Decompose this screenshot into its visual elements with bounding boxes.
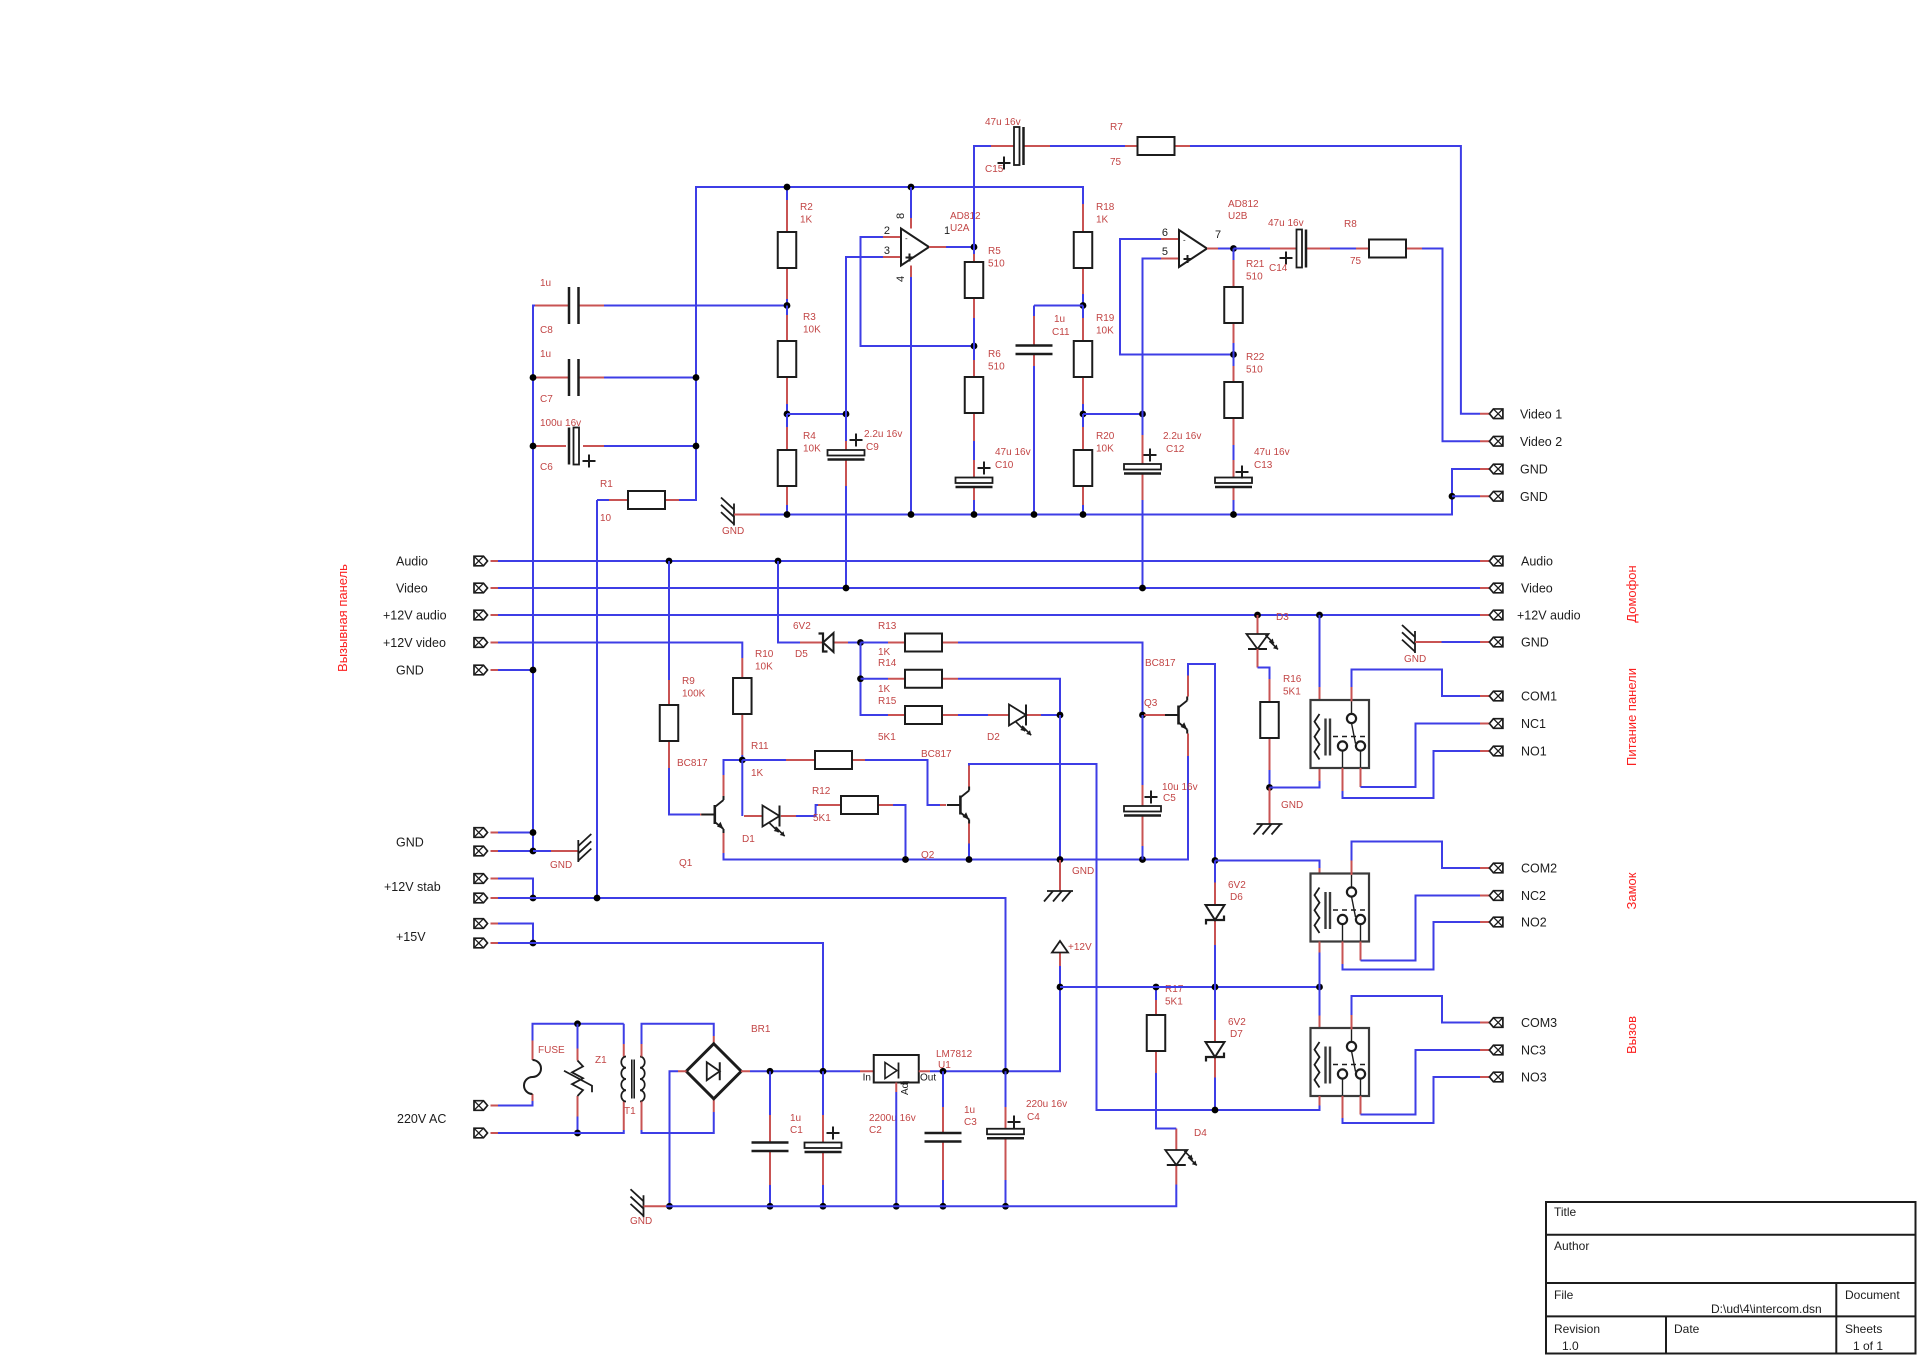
wire Q1 collector to node bbox=[724, 760, 743, 775]
Q1 base stub bbox=[700, 814, 702, 816]
zener diode D5 bbox=[819, 633, 834, 652]
junction bbox=[971, 511, 978, 518]
wire top supply bus bbox=[679, 187, 1083, 500]
junction bbox=[530, 667, 537, 674]
wire bbox=[861, 678, 889, 680]
port +12V audio right stub bbox=[1480, 614, 1489, 616]
port Audio left bbox=[474, 556, 488, 566]
resistor R17 bbox=[1147, 1015, 1166, 1051]
junction bbox=[820, 1203, 827, 1210]
capacitor C9 pins bbox=[845, 441, 847, 450]
wire bbox=[577, 1117, 579, 1134]
resistor R9 label bbox=[682, 676, 706, 700]
svg-text:GND: GND bbox=[1281, 800, 1303, 811]
resistor R3 pins bbox=[786, 315, 788, 341]
transistor Q1 bbox=[701, 796, 723, 833]
wire audio bus bbox=[498, 560, 1480, 562]
capacitor C5 pins bbox=[1142, 785, 1144, 806]
Q2 emitter bbox=[968, 824, 970, 844]
svg-text:1u: 1u bbox=[540, 349, 551, 360]
wire K3 NO to NO3 bbox=[1343, 1077, 1481, 1123]
svg-text:10K: 10K bbox=[1096, 326, 1114, 337]
port NC3 stub bbox=[1480, 1049, 1489, 1051]
svg-text:C12: C12 bbox=[1166, 444, 1185, 455]
port +12V stab b stub bbox=[491, 897, 499, 899]
svg-text:-: - bbox=[905, 234, 908, 243]
resistor R1 label bbox=[600, 479, 613, 524]
junction bbox=[1057, 984, 1064, 991]
svg-text:COM1: COM1 bbox=[1521, 690, 1557, 704]
junction bbox=[739, 757, 746, 764]
junction bbox=[1230, 245, 1237, 252]
wire R11 to Q2 base bbox=[865, 760, 940, 805]
junction bbox=[893, 1203, 900, 1210]
svg-text:C5: C5 bbox=[1163, 793, 1176, 804]
diode D7 labels bbox=[1228, 1017, 1246, 1040]
svg-text:+12V audio: +12V audio bbox=[1517, 609, 1581, 623]
wire +15V row bbox=[498, 943, 823, 1071]
svg-text:C13: C13 bbox=[1254, 460, 1273, 471]
svg-text:GND: GND bbox=[630, 1216, 652, 1227]
svg-text:R16: R16 bbox=[1283, 674, 1302, 685]
svg-text:2: 2 bbox=[884, 225, 890, 237]
svg-text:GND: GND bbox=[1404, 654, 1426, 665]
resistor R1 pins bbox=[609, 499, 628, 501]
port GND right-top2 stub bbox=[1480, 495, 1489, 497]
svg-text:AD812: AD812 bbox=[1228, 199, 1259, 210]
svg-text:Revision: Revision bbox=[1554, 1322, 1600, 1336]
capacitor C8 bbox=[569, 287, 579, 324]
junction bbox=[902, 856, 909, 863]
junction bbox=[594, 895, 601, 902]
LED D4 bbox=[1165, 1150, 1196, 1165]
svg-text:Q2: Q2 bbox=[921, 850, 935, 861]
svg-text:10K: 10K bbox=[755, 662, 773, 673]
port Video 1 stub bbox=[1480, 413, 1489, 415]
wire bbox=[786, 505, 788, 515]
svg-text:1: 1 bbox=[944, 225, 950, 237]
wire AC2 row bbox=[498, 1130, 624, 1133]
junction bbox=[1316, 984, 1323, 991]
svg-text:Video 2: Video 2 bbox=[1520, 435, 1562, 449]
svg-text:+12V stab: +12V stab bbox=[384, 880, 441, 894]
port COM1 bbox=[1489, 691, 1503, 701]
port Video right stub bbox=[1480, 587, 1489, 589]
svg-text:Adj: Adj bbox=[900, 1081, 911, 1095]
resistor R20 label bbox=[1096, 431, 1115, 455]
K2 NO pin bbox=[1342, 942, 1344, 965]
resistor R9 bbox=[660, 705, 679, 741]
svg-text:D4: D4 bbox=[1194, 1128, 1207, 1139]
capacitor C13 label bbox=[1254, 447, 1290, 471]
resistor R16 bbox=[1260, 702, 1279, 738]
ground left bbox=[578, 834, 591, 862]
resistor R20 bbox=[1074, 450, 1093, 486]
wire Q3 base to C5 bbox=[1142, 715, 1144, 785]
wire pin5 to node bbox=[1143, 259, 1162, 415]
junction bbox=[530, 895, 537, 902]
svg-text:Вызывная панель: Вызывная панель bbox=[335, 564, 350, 672]
capacitor C1 pins bbox=[769, 1115, 771, 1143]
capacitor C8 pins bbox=[535, 305, 569, 307]
capacitor C3 pins bbox=[942, 1107, 944, 1133]
resistor R18 label bbox=[1096, 202, 1115, 226]
R16 ground pin bbox=[1269, 788, 1271, 825]
wire bbox=[1233, 355, 1235, 367]
wire bbox=[958, 714, 988, 716]
svg-text:+15V: +15V bbox=[396, 930, 426, 944]
resistor R4 pins bbox=[786, 427, 788, 450]
svg-text:10u 16v: 10u 16v bbox=[1162, 782, 1198, 793]
resistor R16 label bbox=[1283, 674, 1302, 698]
svg-text:8: 8 bbox=[895, 213, 907, 219]
junction bbox=[530, 374, 537, 381]
port 220V AC a bbox=[474, 1101, 488, 1111]
svg-text:10: 10 bbox=[600, 513, 612, 524]
Q1 collector bbox=[723, 775, 725, 796]
wire bbox=[1233, 249, 1235, 261]
junction bbox=[908, 184, 915, 191]
junction bbox=[940, 1203, 947, 1210]
resistor R17 label bbox=[1165, 984, 1184, 1008]
port +15V b stub bbox=[491, 942, 499, 944]
port GND left stub bbox=[491, 669, 499, 671]
T1 primary pins bbox=[623, 1102, 625, 1131]
port GND right-top2 bbox=[1489, 491, 1503, 501]
svg-text:5K1: 5K1 bbox=[1165, 997, 1183, 1008]
Q3 base stub bbox=[1144, 714, 1165, 716]
svg-text:Q3: Q3 bbox=[1144, 698, 1158, 709]
port GND2b bbox=[474, 846, 488, 856]
resistor R15 bbox=[905, 706, 942, 724]
K2 COM pin bbox=[1351, 861, 1353, 876]
svg-text:1 of 1: 1 of 1 bbox=[1853, 1339, 1883, 1353]
wire bbox=[968, 844, 970, 860]
svg-text:1.0: 1.0 bbox=[1562, 1339, 1579, 1353]
wire K1 NC to NC1 bbox=[1361, 724, 1481, 788]
svg-text:C10: C10 bbox=[995, 460, 1014, 471]
svg-text:-: - bbox=[1183, 236, 1186, 245]
capacitor C6 label bbox=[540, 418, 581, 473]
port +15V a bbox=[474, 919, 488, 929]
junction bbox=[784, 302, 791, 309]
wire bbox=[1214, 945, 1216, 987]
junction bbox=[966, 856, 973, 863]
junction bbox=[767, 1203, 774, 1210]
transistor Q2 labels bbox=[921, 749, 952, 861]
svg-text:R13: R13 bbox=[878, 621, 897, 632]
svg-text:U2B: U2B bbox=[1228, 211, 1248, 222]
bridge left pin bbox=[678, 1070, 687, 1072]
wire bbox=[946, 246, 974, 248]
resistor R3 bbox=[778, 341, 797, 377]
svg-text:FUSE: FUSE bbox=[538, 1045, 565, 1056]
port Video 2 bbox=[1489, 436, 1503, 446]
ground right pin bbox=[1415, 641, 1442, 643]
junction bbox=[1212, 857, 1219, 864]
resistor R22 label bbox=[1246, 352, 1265, 376]
resistor R21 bbox=[1224, 287, 1243, 323]
capacitor C14 bbox=[1280, 230, 1307, 268]
wire K3 NC to NC3 bbox=[1361, 1050, 1481, 1115]
wire R14 to D2 node bbox=[958, 679, 1060, 715]
regulator Adj pin bbox=[895, 1083, 897, 1093]
junction bbox=[971, 343, 978, 350]
junction bbox=[666, 558, 673, 565]
svg-text:NO3: NO3 bbox=[1521, 1071, 1547, 1085]
wire bbox=[1214, 1078, 1216, 1111]
ground mid bbox=[1044, 891, 1073, 902]
wire bbox=[822, 1071, 824, 1115]
svg-text:C1: C1 bbox=[790, 1125, 803, 1136]
port GND left bbox=[474, 665, 488, 675]
capacitor C11 bbox=[1016, 346, 1053, 355]
wire bbox=[973, 247, 975, 254]
svg-text:R5: R5 bbox=[988, 246, 1001, 257]
port NO3 bbox=[1489, 1072, 1503, 1082]
svg-text:D6: D6 bbox=[1230, 892, 1243, 903]
svg-text:COM3: COM3 bbox=[1521, 1016, 1557, 1030]
capacitor C5 label bbox=[1162, 782, 1198, 804]
svg-text:47u 16v: 47u 16v bbox=[995, 447, 1031, 458]
wire R7 to Video1 port bbox=[1190, 146, 1480, 414]
wire K1 NO to NO1 bbox=[1343, 751, 1481, 798]
svg-text:T1: T1 bbox=[624, 1106, 636, 1117]
svg-text:510: 510 bbox=[988, 362, 1005, 373]
wire C7 to bus column bbox=[604, 377, 696, 379]
wire bbox=[742, 759, 786, 761]
junction bbox=[530, 443, 537, 450]
relay K3 bbox=[1311, 1028, 1370, 1096]
resistor R21 label bbox=[1246, 259, 1265, 283]
capacitor C14 pins bbox=[1270, 248, 1297, 250]
wire R8 to Video2 port bbox=[1422, 249, 1480, 442]
wire bbox=[769, 1185, 771, 1206]
svg-text:1u: 1u bbox=[964, 1105, 975, 1116]
wire bbox=[498, 850, 533, 852]
svg-text:+12V video: +12V video bbox=[383, 636, 446, 650]
wire R12 down bbox=[893, 805, 906, 860]
svg-text:Домофон: Домофон bbox=[1624, 565, 1639, 622]
port COM2 bbox=[1489, 863, 1503, 873]
junction bbox=[1254, 612, 1261, 619]
junction bbox=[843, 585, 850, 592]
capacitor C14 label bbox=[1268, 218, 1304, 274]
wire bbox=[1214, 861, 1216, 883]
svg-text:NC2: NC2 bbox=[1521, 889, 1546, 903]
svg-text:R11: R11 bbox=[751, 741, 769, 752]
wire bbox=[786, 299, 788, 306]
port +12V stab a bbox=[474, 874, 488, 884]
svg-text:1K: 1K bbox=[878, 647, 891, 658]
resistor R19 label bbox=[1096, 313, 1115, 337]
junction bbox=[1316, 612, 1323, 619]
+12V arrow pin bbox=[1059, 953, 1061, 967]
capacitor C1 bbox=[752, 1143, 789, 1152]
wire C12 to video row bbox=[1142, 500, 1144, 588]
resistor R11 label bbox=[751, 741, 769, 779]
wire C9 top bbox=[845, 414, 847, 441]
junction bbox=[775, 558, 782, 565]
port GND right-top bbox=[1489, 464, 1503, 474]
port COM2 stub bbox=[1480, 867, 1489, 869]
wire bbox=[1330, 248, 1356, 250]
svg-text:GND: GND bbox=[1072, 866, 1094, 877]
svg-text:R4: R4 bbox=[803, 431, 816, 442]
capacitor C9 label bbox=[864, 429, 902, 453]
junction bbox=[1002, 1068, 1009, 1075]
wire secondary top to bridge bbox=[642, 1024, 714, 1044]
relay K1 bbox=[1311, 700, 1370, 768]
Q2 collector bbox=[968, 766, 970, 787]
svg-text:GND: GND bbox=[722, 526, 744, 537]
wire bbox=[623, 1024, 625, 1044]
wire bbox=[1218, 248, 1234, 250]
capacitor C7 bbox=[569, 359, 579, 396]
svg-text:Out: Out bbox=[920, 1073, 936, 1084]
svg-text:5K1: 5K1 bbox=[1283, 687, 1301, 698]
wire adj to gnd bbox=[895, 1092, 897, 1206]
svg-text:6: 6 bbox=[1162, 227, 1168, 239]
capacitor C5 bbox=[1124, 791, 1161, 816]
resistor R4 label bbox=[803, 431, 821, 455]
wire bbox=[973, 500, 975, 515]
junction bbox=[843, 411, 850, 418]
svg-text:R6: R6 bbox=[988, 349, 1001, 360]
junction bbox=[1080, 411, 1087, 418]
wire GND port to column bbox=[498, 669, 533, 671]
junction bbox=[1057, 856, 1064, 863]
power +12V symbol bbox=[1052, 941, 1068, 953]
svg-text:5: 5 bbox=[1162, 246, 1168, 258]
ground R16 bbox=[1254, 824, 1283, 835]
bridge rectifier BR1 bbox=[686, 1044, 741, 1099]
wire raw dc row bbox=[750, 1070, 860, 1072]
svg-text:C4: C4 bbox=[1027, 1112, 1040, 1123]
transistor Q3 labels bbox=[1144, 658, 1176, 709]
resistor R5 label bbox=[988, 246, 1005, 270]
capacitor C3 bbox=[925, 1133, 962, 1142]
wire bbox=[1442, 641, 1481, 643]
junction bbox=[693, 443, 700, 450]
port +12V audio left stub bbox=[491, 614, 499, 616]
capacitor C6 pins bbox=[535, 445, 566, 447]
wire bbox=[1233, 445, 1235, 460]
svg-text:D3: D3 bbox=[1276, 612, 1289, 623]
resistor R7 label bbox=[1110, 122, 1123, 168]
wire D3 to R16 bbox=[1258, 668, 1270, 680]
svg-text:Video 1: Video 1 bbox=[1520, 408, 1562, 422]
svg-text:1K: 1K bbox=[878, 684, 891, 695]
varistor Z1 bbox=[564, 1061, 592, 1097]
capacitor C15 pins bbox=[991, 145, 1014, 147]
svg-text:R20: R20 bbox=[1096, 431, 1115, 442]
LED D4 pins bbox=[1175, 1165, 1177, 1185]
svg-text:6V2: 6V2 bbox=[793, 621, 811, 632]
capacitor C10 pins bbox=[973, 460, 975, 478]
wire Q2 collector to +12V row bbox=[969, 764, 1320, 1110]
junction bbox=[1057, 712, 1064, 719]
svg-text:C14: C14 bbox=[1269, 263, 1288, 274]
svg-text:1K: 1K bbox=[1096, 215, 1109, 226]
zener diode D6 bbox=[1206, 905, 1225, 925]
svg-text:AD812: AD812 bbox=[950, 211, 981, 222]
wire K2 COM to COM2 bbox=[1352, 842, 1481, 869]
port GND right bbox=[1489, 637, 1503, 647]
wire bbox=[1059, 966, 1061, 987]
svg-text:47u 16v: 47u 16v bbox=[985, 117, 1021, 128]
svg-text:D1: D1 bbox=[742, 834, 755, 845]
port NO2 bbox=[1489, 917, 1503, 927]
capacitor C12 bbox=[1124, 449, 1161, 474]
capacitor C2 pins bbox=[822, 1115, 824, 1143]
port COM1 stub bbox=[1480, 695, 1489, 697]
wire bbox=[498, 924, 533, 944]
resistor R1 bbox=[628, 491, 665, 509]
svg-text:R8: R8 bbox=[1344, 219, 1357, 230]
zener diode D7 bbox=[1206, 1042, 1225, 1062]
regulator Out pin bbox=[919, 1070, 930, 1072]
port NC3 bbox=[1489, 1045, 1503, 1055]
title block labels bbox=[1554, 1205, 1900, 1353]
resistor R8 pins bbox=[1356, 248, 1369, 250]
svg-text:Замок: Замок bbox=[1624, 872, 1639, 909]
junction bbox=[940, 1068, 947, 1075]
wire bbox=[973, 346, 975, 360]
resistor R7 bbox=[1138, 137, 1175, 155]
wire video bus bbox=[498, 587, 1480, 589]
diode D5 labels bbox=[793, 621, 811, 660]
regulator U1 labels bbox=[936, 1049, 973, 1071]
ground power pin bbox=[644, 1205, 667, 1207]
K3 coil+ pin bbox=[1319, 1016, 1321, 1030]
svg-text:COM2: COM2 bbox=[1521, 862, 1557, 876]
op-amp U2B pin6 wire bbox=[1161, 238, 1179, 240]
resistor R14 bbox=[905, 670, 942, 688]
junction bbox=[1139, 411, 1146, 418]
wire bbox=[942, 1071, 944, 1107]
wire regulator out row bbox=[930, 966, 1060, 1071]
varistor Z1 pins bbox=[577, 1049, 579, 1061]
port Video left bbox=[474, 583, 488, 593]
wire C8 to R2/R3 node bbox=[604, 305, 787, 307]
resistor R13 pins bbox=[888, 642, 905, 644]
diode D7 pins bbox=[1214, 1020, 1216, 1042]
port +12V stab b bbox=[474, 893, 488, 903]
wire bbox=[1142, 414, 1144, 435]
capacitor C6 bbox=[569, 428, 596, 468]
op-amp U2B bbox=[1179, 230, 1207, 267]
junction bbox=[530, 848, 537, 855]
wire D1 to R12 bbox=[796, 805, 818, 816]
wire left cap column bbox=[533, 306, 536, 852]
LED D2 bbox=[1009, 705, 1031, 736]
capacitor C11 pins bbox=[1033, 316, 1035, 346]
wire bbox=[769, 1071, 771, 1115]
svg-text:47u 16v: 47u 16v bbox=[1268, 218, 1304, 229]
ground right bbox=[1402, 625, 1415, 653]
resistor R11 bbox=[815, 751, 852, 769]
wire bridge minus down bbox=[670, 1071, 679, 1206]
svg-text:BC817: BC817 bbox=[921, 749, 952, 760]
wire C11 to gnd row bbox=[1033, 366, 1035, 515]
transformer T1 bbox=[621, 1057, 644, 1102]
svg-text:1K: 1K bbox=[800, 215, 813, 226]
wire bbox=[848, 642, 861, 644]
regulator In pin bbox=[860, 1070, 874, 1072]
svg-text:GND: GND bbox=[1521, 636, 1549, 650]
wire bbox=[1233, 500, 1235, 515]
